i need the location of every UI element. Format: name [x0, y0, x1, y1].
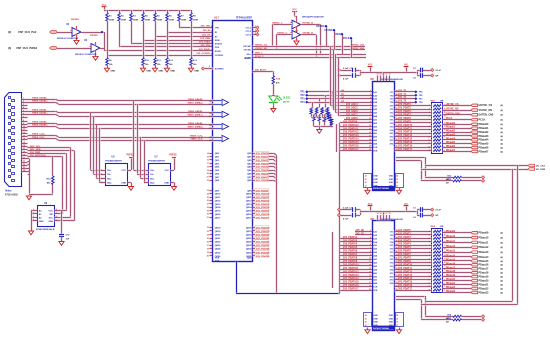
svg-text:PData20: PData20 — [446, 278, 456, 281]
svg-text:8: 8 — [56, 209, 57, 211]
svg-text:PCLK: PCLK — [479, 119, 486, 122]
svg-text:GND: GND — [389, 186, 394, 188]
svg-text:2V5_PDAT18: 2V5_PDAT18 — [256, 226, 270, 229]
svg-text:PCLK_C: PCLK_C — [255, 56, 264, 58]
svg-text:1: 1 — [429, 105, 430, 107]
svg-text:QE7: QE7 — [247, 177, 252, 179]
svg-text:2V5_PDAT9: 2V5_PDAT9 — [398, 120, 411, 123]
svg-text:3: 3 — [370, 94, 371, 96]
svg-text:2V5_PDAT4: 2V5_PDAT4 — [398, 243, 411, 246]
svg-text:2V5_PDAT15: 2V5_PDAT15 — [256, 210, 270, 213]
svg-text:SDn: SDn — [150, 178, 155, 180]
svg-text:24: 24 — [396, 174, 398, 177]
svg-text:GND: GND — [374, 182, 379, 184]
svg-text:GND: GND — [389, 318, 394, 320]
svg-text:5: 5 — [23, 110, 24, 112]
svg-text:14: 14 — [377, 73, 379, 76]
svg-text:18: 18 — [207, 166, 209, 168]
svg-text:PData05: PData05 — [446, 141, 456, 144]
svg-text:QE6: QE6 — [215, 173, 220, 175]
svg-text:2V5_PDAT13: 2V5_PDAT13 — [256, 203, 270, 206]
svg-text:QE0: QE0 — [247, 153, 252, 155]
svg-text:0.1uF: 0.1uF — [343, 68, 349, 70]
svg-text:PData14: PData14 — [479, 256, 489, 259]
svg-text:2V5_HSC4: 2V5_HSC4 — [346, 103, 358, 106]
svg-text:2V5_PDATA4: 2V5_PDATA4 — [343, 243, 358, 246]
svg-text:2V5_Q0: 2V5_Q0 — [356, 230, 365, 232]
svg-text:19: 19 — [369, 289, 371, 291]
svg-text:9: 9 — [211, 31, 212, 33]
svg-text:2V5_PDAT17: 2V5_PDAT17 — [398, 288, 413, 291]
svg-text:47151-0001: 47151-0001 — [5, 194, 18, 197]
svg-text:2V5_PDATA7: 2V5_PDATA7 — [343, 253, 358, 256]
svg-text:PData13: PData13 — [479, 251, 489, 254]
svg-text:9: 9 — [370, 254, 371, 256]
svg-text:PData00: PData00 — [479, 123, 489, 126]
svg-text:QE21: QE21 — [215, 238, 221, 240]
svg-text:GND: GND — [389, 182, 394, 184]
svg-text:9: 9 — [429, 133, 430, 135]
svg-text:2V5_PDATA10: 2V5_PDATA10 — [343, 263, 359, 266]
svg-text:-3: -3 — [429, 231, 431, 233]
svg-text:QE14: QE14 — [215, 206, 221, 209]
svg-text:7: 7 — [23, 117, 24, 119]
svg-text:QE19: QE19 — [246, 231, 252, 233]
svg-text:2V5_PDATA11: 2V5_PDATA11 — [343, 267, 359, 270]
svg-text:24: 24 — [365, 174, 367, 177]
svg-text:2V5_PDAT12: 2V5_PDAT12 — [398, 270, 413, 273]
svg-text:(2): (2) — [8, 30, 11, 34]
svg-text:4: 4 — [144, 181, 145, 184]
svg-text:TPD4E004DRYR: TPD4E004DRYR — [105, 159, 122, 162]
svg-text:2V5_PDAT0: 2V5_PDAT0 — [256, 152, 269, 155]
svg-text:(4): (4) — [501, 127, 504, 130]
svg-text:2V5_Q1: 2V5_Q1 — [356, 233, 365, 235]
svg-text:15: 15 — [207, 156, 209, 158]
svg-text:2V5_PDAT8: 2V5_PDAT8 — [398, 117, 411, 120]
svg-text:2V5_PDAT11: 2V5_PDAT11 — [398, 267, 413, 270]
svg-text:24: 24 — [396, 314, 398, 317]
svg-text:0.1uF: 0.1uF — [343, 207, 349, 209]
svg-text:7: 7 — [370, 108, 371, 110]
svg-text:9: 9 — [211, 45, 212, 47]
svg-text:PData04: PData04 — [479, 139, 489, 142]
svg-text:(4): (4) — [501, 114, 504, 117]
svg-text:GND: GND — [389, 325, 394, 327]
svg-text:15: 15 — [380, 213, 382, 215]
svg-text:PData21: PData21 — [446, 282, 456, 285]
svg-text:2V5_PDAT17: 2V5_PDAT17 — [256, 216, 270, 219]
svg-text:27: 27 — [365, 186, 367, 188]
svg-text:(4): (4) — [501, 123, 504, 126]
svg-text:QE12: QE12 — [215, 200, 221, 202]
svg-text:TMDS_CLK-: TMDS_CLK- — [32, 137, 45, 139]
svg-text:1PD: 1PD — [215, 28, 220, 30]
svg-text:(4): (4) — [501, 236, 504, 239]
svg-text:GND: GND — [374, 325, 379, 327]
svg-text:QE1: QE1 — [215, 157, 220, 159]
svg-text:(3): (3) — [8, 46, 11, 50]
svg-text:DDC_SCL: DDC_SCL — [30, 146, 41, 148]
svg-text:P5FB1: P5FB1 — [170, 155, 178, 157]
svg-text:TMDS_DATA1-: TMDS_DATA1- — [32, 108, 47, 111]
svg-text:2OE: 2OE — [215, 260, 220, 262]
svg-text:PCLK: PCLK — [343, 37, 350, 40]
svg-text:SDA: SDA — [48, 220, 53, 223]
svg-text:7: 7 — [56, 213, 57, 215]
svg-text:5: 5 — [370, 101, 371, 103]
svg-text:11: 11 — [428, 140, 430, 142]
svg-text:2V5_PDATA14: 2V5_PDATA14 — [343, 277, 359, 280]
svg-text:16: 16 — [383, 74, 385, 76]
svg-text:QE17: QE17 — [246, 217, 252, 219]
svg-text:13: 13 — [369, 268, 371, 270]
svg-text:34: 34 — [207, 233, 209, 236]
svg-text:STAG0: STAG0 — [215, 43, 223, 46]
svg-text:HSYNC_CS: HSYNC_CS — [446, 104, 459, 106]
svg-text:16: 16 — [383, 213, 385, 215]
svg-text:QE9: QE9 — [215, 190, 220, 192]
svg-text:PData19: PData19 — [479, 276, 489, 279]
svg-text:11: 11 — [369, 122, 371, 124]
svg-text:2V5_HSC7: 2V5_HSC7 — [346, 114, 358, 116]
svg-text:QE13: QE13 — [215, 204, 221, 206]
svg-text:16: 16 — [369, 278, 371, 280]
svg-text:3: 3 — [429, 252, 430, 254]
svg-text:RKB: RKB — [215, 40, 220, 42]
svg-text:17: 17 — [23, 148, 25, 150]
svg-text:QE12: QE12 — [246, 200, 252, 202]
svg-text:VSYNC: VSYNC — [324, 29, 333, 32]
svg-text:2V5_PDAT20: 2V5_PDAT20 — [256, 234, 270, 237]
svg-text:SN74AUP1G34DCKR: SN74AUP1G34DCKR — [302, 16, 324, 19]
svg-text:GND: GND — [194, 71, 199, 73]
svg-text:9: 9 — [211, 49, 212, 51]
svg-text:QE23: QE23 — [246, 245, 252, 247]
svg-text:HSYNC_CS: HSYNC_CS — [255, 45, 267, 47]
svg-text:PData01: PData01 — [446, 126, 456, 129]
svg-text:19: 19 — [23, 154, 25, 156]
svg-text:PData15: PData15 — [446, 258, 456, 261]
svg-text:PData00: PData00 — [446, 122, 456, 125]
svg-text:8: 8 — [370, 251, 371, 253]
svg-text:15: 15 — [369, 135, 371, 137]
svg-text:1: 1 — [429, 245, 430, 247]
svg-text:U6?: U6? — [370, 79, 375, 81]
svg-text:QE8: QE8 — [247, 257, 252, 259]
svg-text:2V5_HSC6: 2V5_HSC6 — [346, 111, 358, 113]
svg-text:5: 5 — [370, 240, 371, 242]
svg-text:20: 20 — [207, 173, 209, 175]
svg-text:2V5_PDAT3: 2V5_PDAT3 — [256, 162, 269, 165]
svg-text:26: 26 — [365, 182, 367, 184]
svg-text:QE18: QE18 — [215, 227, 221, 229]
svg-text:5: 5 — [429, 259, 430, 261]
svg-text:VSYNC_B: VSYNC_B — [303, 33, 314, 35]
svg-text:PData10: PData10 — [446, 235, 456, 238]
svg-text:27: 27 — [207, 204, 209, 206]
svg-text:2V5_PDATA9: 2V5_PDATA9 — [343, 260, 358, 263]
svg-text:12: 12 — [428, 143, 430, 145]
svg-text:DATEN_CN0: DATEN_CN0 — [446, 112, 460, 115]
svg-text:QE4: QE4 — [215, 166, 220, 169]
svg-text:HSYNC_CS0: HSYNC_CS0 — [351, 45, 365, 47]
svg-text:SCL: SCL — [49, 217, 54, 219]
svg-text:7: 7 — [429, 126, 430, 128]
svg-text:2V5_PDATA15: 2V5_PDATA15 — [343, 281, 359, 284]
svg-text:8: 8 — [209, 66, 210, 68]
svg-text:OCKINV: OCKINV — [215, 55, 224, 57]
svg-text:SDn: SDn — [107, 178, 112, 180]
svg-text:8: 8 — [429, 129, 430, 131]
svg-text:25: 25 — [365, 179, 367, 181]
svg-text:2V5_PDAT4: 2V5_PDAT4 — [398, 103, 411, 106]
svg-text:QE6: QE6 — [247, 173, 252, 175]
svg-text:PData03: PData03 — [446, 133, 456, 136]
svg-text:26: 26 — [396, 182, 398, 184]
svg-text:2V5_PDAT6: 2V5_PDAT6 — [398, 250, 411, 253]
svg-text:2V5_PDAT16: 2V5_PDAT16 — [256, 213, 270, 216]
svg-text:PData21: PData21 — [479, 283, 489, 286]
svg-text:6: 6 — [23, 113, 24, 115]
svg-text:PData04: PData04 — [446, 137, 456, 140]
svg-text:(4): (4) — [501, 283, 504, 286]
svg-text:2V5_ST: 2V5_ST — [202, 35, 211, 37]
svg-text:18: 18 — [23, 151, 25, 153]
svg-text:2V5_PDAT23: 2V5_PDAT23 — [256, 244, 270, 247]
svg-text:(4): (4) — [501, 104, 504, 107]
svg-text:2V5_PDAT10: 2V5_PDAT10 — [256, 193, 270, 196]
svg-text:15: 15 — [369, 275, 371, 277]
svg-text:16: 16 — [207, 160, 209, 162]
svg-text:3: 3 — [23, 104, 24, 106]
svg-text:7: 7 — [429, 266, 430, 268]
svg-text:2V5_PDATA10: 2V5_PDATA10 — [343, 124, 359, 127]
svg-text:QE24: QE24 — [246, 248, 252, 251]
svg-text:GND: GND — [158, 71, 163, 73]
svg-text:3: 3 — [370, 234, 371, 236]
svg-text:VSYNC_C: VSYNC_C — [277, 33, 288, 35]
svg-text:10: 10 — [369, 258, 371, 260]
svg-text:QE21: QE21 — [246, 238, 252, 240]
svg-text:6: 6 — [370, 244, 371, 246]
svg-text:4.7uF: 4.7uF — [343, 78, 349, 81]
svg-text:GND: GND — [146, 71, 151, 73]
svg-text:17: 17 — [369, 282, 371, 284]
svg-text:2V5_PDAT7: 2V5_PDAT7 — [398, 113, 411, 116]
svg-text:9: 9 — [429, 272, 430, 274]
svg-text:3: 3 — [255, 30, 256, 32]
svg-text:22: 22 — [207, 180, 209, 182]
svg-text:DEN: DEN — [335, 33, 340, 36]
svg-text:PData16: PData16 — [479, 264, 489, 267]
svg-text:8: 8 — [444, 276, 445, 278]
svg-text:(4): (4) — [501, 135, 504, 138]
svg-text:2V5_PDAT1: 2V5_PDAT1 — [256, 156, 269, 159]
svg-text:10R: 10R — [440, 226, 444, 228]
svg-text:(4): (4) — [501, 150, 504, 153]
svg-text:9: 9 — [211, 26, 212, 28]
svg-text:PData03: PData03 — [479, 135, 489, 138]
svg-text:(4): (4) — [501, 291, 504, 294]
svg-text:16: 16 — [369, 139, 371, 141]
svg-text:2V5_PDATA13: 2V5_PDATA13 — [343, 274, 359, 277]
svg-text:VCC: VCC — [368, 64, 373, 66]
svg-text:14: 14 — [23, 138, 25, 141]
svg-text:39: 39 — [207, 252, 209, 254]
svg-text:18: 18 — [389, 213, 391, 215]
svg-text:20: 20 — [23, 158, 25, 160]
svg-text:VCC: VCC — [292, 9, 297, 11]
svg-text:QE25: QE25 — [215, 252, 221, 254]
svg-text:9: 9 — [23, 123, 24, 125]
svg-text:19: 19 — [444, 238, 446, 240]
svg-text:QE0: QE0 — [215, 153, 220, 155]
svg-text:17: 17 — [207, 163, 209, 165]
svg-text:25: 25 — [207, 197, 209, 199]
svg-text:2V5_PDAT6: 2V5_PDAT6 — [256, 172, 269, 175]
svg-text:HSYNC_CS: HSYNC_CS — [479, 104, 493, 107]
svg-text:WP: WP — [49, 214, 53, 216]
svg-text:30: 30 — [207, 214, 209, 216]
svg-text:QE10: QE10 — [215, 194, 221, 196]
svg-text:QE4: QE4 — [247, 166, 252, 169]
svg-text:20: 20 — [209, 125, 211, 127]
svg-text:9: 9 — [444, 272, 445, 274]
svg-text:17: 17 — [209, 104, 211, 106]
svg-text:3: 3 — [255, 33, 256, 35]
svg-text:TMDS_CLK-: TMDS_CLK- — [190, 139, 203, 141]
svg-text:(4): (4) — [501, 280, 504, 283]
svg-text:9: 9 — [370, 115, 371, 117]
svg-text:11: 11 — [23, 129, 25, 131]
svg-text:GND: GND — [374, 318, 379, 320]
svg-text:SDp: SDp — [107, 183, 112, 185]
svg-text:2V5_PDAT13: 2V5_PDAT13 — [398, 274, 413, 277]
svg-text:U1?: U1? — [214, 16, 219, 20]
svg-text:4: 4 — [101, 181, 102, 184]
svg-text:VSP_OU1_PA2: VSP_OU1_PA2 — [18, 30, 37, 34]
svg-text:TMDS_DATA0+: TMDS_DATA0+ — [32, 124, 48, 127]
svg-text:HSYNC: HSYNC — [243, 46, 251, 48]
svg-text:2V5_T3: 2V5_T3 — [398, 101, 407, 103]
svg-text:QE16: QE16 — [246, 214, 252, 216]
svg-text:2V5_PDAT14: 2V5_PDAT14 — [256, 206, 270, 209]
svg-text:QE22: QE22 — [215, 242, 221, 244]
svg-text:2V5_PDAT24: 2V5_PDAT24 — [256, 248, 270, 251]
svg-text:100R: 100R — [193, 20, 199, 22]
svg-text:(4): (4) — [501, 264, 504, 267]
svg-text:GND: GND — [39, 221, 44, 223]
svg-text:2V5_STAG: 2V5_STAG — [199, 41, 210, 44]
svg-text:TMDS_DATA2+: TMDS_DATA2+ — [187, 101, 203, 104]
svg-text:100R: 100R — [181, 20, 187, 22]
svg-text:EXTRES: EXTRES — [215, 69, 224, 71]
svg-text:2V5_PDAT21: 2V5_PDAT21 — [256, 237, 270, 240]
svg-text:PData12: PData12 — [446, 245, 456, 248]
svg-text:2: 2 — [429, 109, 430, 111]
svg-text:QE8: QE8 — [215, 180, 220, 182]
svg-text:2V5_PDAT22: 2V5_PDAT22 — [256, 241, 270, 244]
svg-text:29: 29 — [207, 210, 209, 212]
svg-text:2V5_PDAT11: 2V5_PDAT11 — [256, 196, 270, 199]
svg-text:6: 6 — [370, 104, 371, 106]
svg-text:SN74LVC16244ADGGR: SN74LVC16244ADGGR — [381, 78, 403, 81]
svg-text:2V5_PDAT17: 2V5_PDAT17 — [398, 148, 413, 151]
svg-text:(4): (4) — [501, 268, 504, 271]
svg-text:PData22: PData22 — [446, 286, 456, 289]
svg-text:QE14: QE14 — [246, 206, 252, 209]
svg-text:(4): (4) — [501, 246, 504, 249]
svg-text:PData06: PData06 — [479, 146, 489, 149]
svg-text:13: 13 — [428, 147, 430, 149]
svg-text:TMDS_DATA0+: TMDS_DATA0+ — [187, 125, 203, 128]
svg-text:4: 4 — [33, 219, 34, 222]
svg-text:2V5_PDAT0: 2V5_PDAT0 — [398, 229, 411, 232]
svg-text:2V5_RKB: 2V5_RKB — [200, 38, 210, 40]
svg-text:24: 24 — [23, 169, 25, 172]
svg-text:green: green — [283, 102, 290, 104]
svg-text:19: 19 — [369, 149, 371, 151]
svg-text:QE15: QE15 — [246, 211, 252, 213]
svg-text:GND: GND — [170, 71, 175, 73]
svg-text:(4): (4) — [501, 256, 504, 259]
svg-text:2V5_RSVD: 2V5_RSVD — [199, 49, 211, 51]
svg-text:QE3: QE3 — [247, 163, 252, 165]
svg-text:Video: Video — [5, 190, 12, 193]
svg-text:2OE: 2OE — [373, 150, 378, 152]
svg-text:24: 24 — [365, 314, 367, 317]
svg-text:2V5_PDAT7: 2V5_PDAT7 — [398, 253, 411, 256]
svg-text:1: 1 — [33, 209, 34, 211]
svg-text:QE20: QE20 — [215, 235, 221, 237]
svg-text:14: 14 — [377, 212, 379, 215]
svg-text:25: 25 — [396, 179, 398, 181]
svg-text:16: 16 — [23, 145, 25, 147]
svg-text:26: 26 — [396, 322, 398, 324]
svg-text:2: 2 — [370, 230, 371, 232]
svg-text:5: 5 — [444, 286, 445, 288]
svg-text:PData01: PData01 — [479, 127, 489, 130]
svg-text:PData02: PData02 — [479, 131, 489, 134]
svg-text:4: 4 — [370, 236, 371, 239]
svg-text:PData11: PData11 — [446, 240, 456, 243]
svg-text:9: 9 — [211, 39, 212, 41]
svg-text:19: 19 — [207, 170, 209, 172]
svg-text:2: 2 — [144, 174, 145, 176]
svg-text:PData09: PData09 — [479, 232, 489, 235]
svg-text:12: 12 — [428, 283, 430, 285]
svg-text:6: 6 — [429, 262, 430, 264]
svg-text:0.1uF: 0.1uF — [436, 209, 442, 211]
svg-text:PData02: PData02 — [446, 130, 456, 133]
svg-text:GND: GND — [389, 315, 394, 317]
svg-text:14: 14 — [369, 271, 371, 274]
svg-text:36: 36 — [207, 241, 209, 243]
svg-text:12: 12 — [369, 125, 371, 127]
svg-text:3: 3 — [144, 178, 145, 180]
svg-text:32: 32 — [207, 227, 209, 229]
svg-text:100R: 100R — [109, 20, 115, 22]
svg-text:21: 21 — [209, 128, 211, 130]
svg-text:2V5_PDAT4: 2V5_PDAT4 — [256, 166, 269, 169]
svg-text:2V5_PDAT2: 2V5_PDAT2 — [398, 236, 411, 239]
svg-text:PData10: PData10 — [479, 236, 489, 239]
svg-text:21: 21 — [23, 161, 25, 163]
svg-text:0: 0 — [429, 241, 430, 243]
svg-text:TMDS_CLK+: TMDS_CLK+ — [32, 134, 46, 136]
svg-text:15: 15 — [23, 142, 25, 144]
